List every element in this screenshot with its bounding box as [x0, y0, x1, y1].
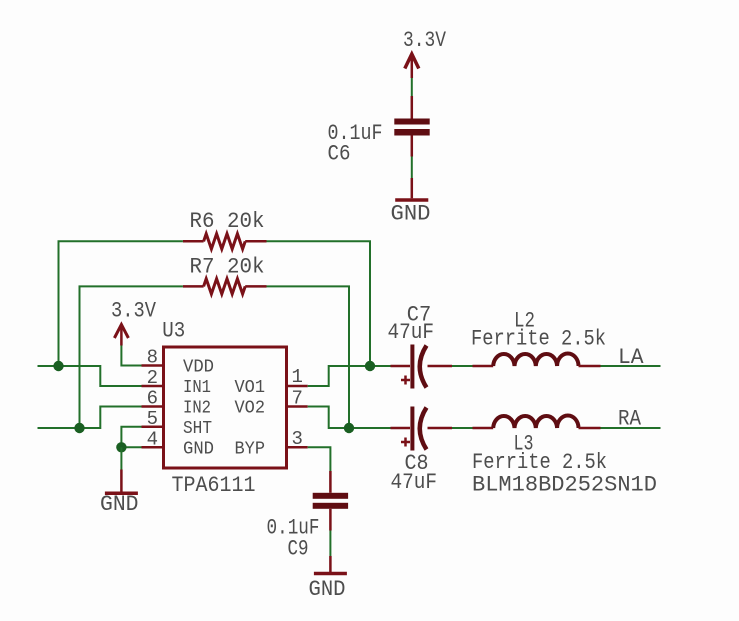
svg-text:8: 8 — [147, 347, 158, 369]
wire L3 to RA — [601, 427, 661, 429]
supply 3.3V arrow symbol (top) — [405, 54, 419, 78]
svg-text:IN1: IN1 — [183, 378, 211, 398]
svg-text:IN2: IN2 — [183, 399, 211, 419]
junction VO2/R7/C8 — [344, 423, 354, 433]
svg-text:Ferrite 2.5k: Ferrite 2.5k — [472, 450, 607, 475]
wire pin 1 VO1 to C7 node — [308, 366, 391, 386]
junction input L / R6 — [53, 361, 63, 371]
capacitor C9 pin top — [329, 471, 332, 493]
wire R6 left to input L node — [59, 241, 183, 366]
inductor L3 left lead — [473, 427, 494, 430]
svg-text:LA: LA — [618, 345, 644, 370]
svg-text:GND: GND — [100, 492, 139, 517]
svg-text:4: 4 — [147, 428, 158, 450]
wire C9 to GND — [329, 531, 331, 557]
junction input R / R7 — [74, 423, 84, 433]
supply 3.3V arrow symbol (left) — [114, 325, 128, 346]
op-amp U3 box — [164, 347, 287, 468]
svg-text:3.3V: 3.3V — [403, 28, 447, 53]
pin 4 stub GND — [142, 446, 164, 449]
capacitor C8 curved plate — [420, 408, 427, 450]
svg-text:GND: GND — [391, 202, 431, 227]
capacitor C7 straight plate — [410, 345, 414, 389]
wire C8 to L3 — [452, 427, 473, 429]
pin 7 stub VO2 — [288, 405, 308, 408]
wire pin 7 VO2 to C8 node — [308, 407, 391, 429]
wire input L to pin 2 IN1 — [38, 366, 142, 386]
capacitor C6 pin top — [411, 96, 414, 119]
wire pin 3 BYP to C9 — [308, 447, 331, 471]
pin 1 stub VO1 — [288, 385, 308, 388]
wire R6 right down to VO1 node — [267, 241, 371, 366]
wire C6 to GND — [411, 157, 413, 179]
svg-text:2: 2 — [147, 367, 158, 389]
capacitor C9 plates — [313, 493, 348, 509]
pin 6 stub IN2 — [142, 405, 164, 408]
resistor R7 leads — [183, 285, 267, 288]
svg-text:5: 5 — [147, 408, 158, 430]
inductor L3 coil — [493, 415, 578, 428]
ground symbol (under C6) — [395, 178, 428, 200]
resistor R7 zigzag body — [204, 279, 246, 294]
svg-text:Ferrite 2.5k: Ferrite 2.5k — [471, 327, 606, 352]
wire C7 to L2 — [452, 365, 473, 367]
svg-text:GND: GND — [183, 439, 214, 459]
capacitor C8 straight plate — [410, 407, 414, 451]
wire ground net down — [120, 447, 122, 469]
svg-text:C9: C9 — [288, 537, 309, 562]
svg-text:VDD: VDD — [183, 358, 214, 378]
svg-text:BLM18BD252SN1D: BLM18BD252SN1D — [472, 473, 657, 498]
svg-text:C6: C6 — [328, 142, 351, 167]
svg-text:47uF: 47uF — [391, 470, 438, 495]
resistor R6 leads — [183, 240, 267, 243]
wire R7 left to input R node — [80, 286, 183, 428]
capacitor C6 plates — [394, 119, 429, 136]
inductor L3 right lead — [579, 427, 601, 430]
wire pin 4 GND to ground net — [121, 446, 141, 448]
wire pin 5 SHT to ground net — [121, 427, 141, 448]
junction SHT/GND net — [116, 442, 126, 452]
capacitor C6 pin bottom — [411, 136, 414, 157]
inductor L2 coil — [493, 353, 578, 366]
svg-text:1: 1 — [292, 366, 303, 388]
svg-text:3.3V: 3.3V — [111, 299, 157, 324]
capacitor C7 left lead — [391, 365, 411, 368]
capacitor C7 right lead — [428, 365, 453, 368]
inductor L2 left lead — [473, 365, 494, 368]
pin 3 stub BYP — [288, 446, 308, 449]
capacitor C8 right lead — [428, 427, 453, 430]
svg-text:7: 7 — [292, 387, 303, 409]
wire R7 right down to VO2 node — [267, 286, 350, 428]
pin 8 stub VDD — [142, 364, 164, 367]
capacitor C7 plus sign — [401, 376, 410, 385]
capacitor C8 plus sign — [401, 438, 410, 447]
svg-text:U3: U3 — [162, 319, 185, 344]
resistor R6 zigzag body — [204, 234, 246, 249]
wire 3.3V to pin 8 VDD — [121, 346, 141, 366]
inductor L2 right lead — [579, 365, 601, 368]
pin 5 stub SHT — [142, 426, 164, 429]
wire input R to pin 6 IN2 — [38, 407, 142, 429]
svg-text:3: 3 — [292, 428, 303, 450]
svg-text:BYP: BYP — [235, 439, 266, 459]
ground symbol (under C9) — [314, 556, 347, 574]
capacitor C9 pin bottom — [329, 509, 332, 531]
svg-text:TPA6111: TPA6111 — [172, 473, 256, 498]
svg-text:47uF: 47uF — [388, 320, 435, 345]
pin 2 stub IN1 — [142, 385, 164, 388]
ground symbol (under U3) — [105, 470, 138, 494]
wire 3.3V to C6 — [411, 78, 413, 96]
svg-text:SHT: SHT — [183, 419, 212, 439]
wire L2 to LA — [601, 365, 661, 367]
svg-text:RA: RA — [618, 407, 642, 432]
svg-text:VO2: VO2 — [235, 399, 266, 419]
svg-text:VO1: VO1 — [235, 378, 266, 398]
capacitor C8 left lead — [391, 427, 411, 430]
capacitor C7 curved plate — [420, 346, 427, 388]
junction VO1/R6/C7 — [365, 361, 375, 371]
svg-text:GND: GND — [309, 577, 346, 602]
svg-text:6: 6 — [147, 388, 158, 410]
